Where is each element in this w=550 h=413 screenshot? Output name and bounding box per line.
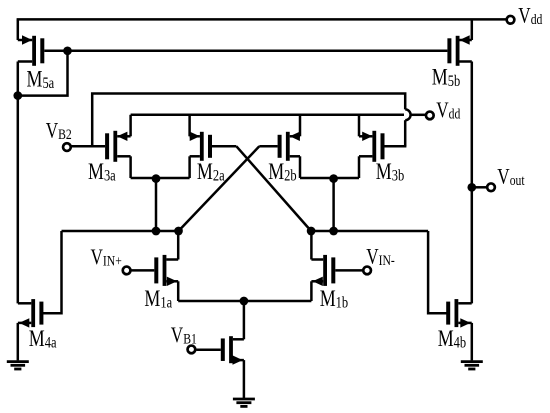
svg-text:M4b: M4b (438, 327, 466, 352)
svg-text:M2a: M2a (197, 160, 225, 185)
wire: diagonal M2a gate to node B (236, 146, 311, 231)
PMOS transistor M3a (105, 131, 131, 162)
svg-text:VIN+: VIN+ (91, 245, 122, 270)
wire: tail line (178, 300, 311, 303)
wire: M1b drain up to node B (310, 231, 313, 260)
junction: tail node (240, 297, 249, 306)
wire: M2a drain drop (188, 156, 191, 178)
terminal Vout (487, 183, 495, 191)
wire: M5b source up to Vdd rail (471, 19, 474, 40)
wire: lead from hop to inner Vdd terminal (411, 114, 426, 117)
ground (under M4a) (7, 362, 29, 369)
PMOS transistor M5a (18, 35, 45, 66)
svg-text:M5a: M5a (27, 67, 55, 92)
wire: node B down to M4b gate (428, 231, 448, 313)
svg-text:M3b: M3b (376, 160, 404, 185)
wire: VIN+ lead to M1a gate (131, 269, 154, 272)
PMOS transistor M3b (359, 131, 385, 162)
wire: right drain node down to node B (332, 178, 335, 231)
wire: VIN- lead to M1b gate (335, 269, 362, 272)
wire: inner Vdd rail (PMOS quad sources) (131, 114, 404, 117)
svg-text:VIN-: VIN- (366, 245, 395, 270)
svg-text:Vdd: Vdd (518, 4, 542, 29)
NMOS transistor M4b (446, 299, 472, 328)
svg-text:Vout: Vout (497, 164, 525, 189)
junction: M5a gate-drain tie node (63, 46, 72, 55)
wire: node B line (311, 230, 428, 233)
wire: left PMOS drain tie bar (131, 177, 190, 180)
svg-text:M1a: M1a (144, 287, 172, 312)
junction: Vout tap on right rail (467, 183, 476, 192)
wire: M3b drain drop (358, 156, 361, 178)
svg-text:VB1: VB1 (171, 323, 197, 348)
wire: gate bus from M5a to M5b (68, 50, 448, 53)
terminal VB2 (63, 143, 71, 151)
junction: node B / drain drop (329, 227, 338, 236)
wire: VB1 lead to gate (196, 348, 221, 351)
wire: M5a source up to Vdd rail (17, 19, 20, 40)
wire: VB2 bias rail linking M3a and M3b gates (92, 94, 405, 147)
wire: M3b gate lead (385, 145, 407, 148)
junction: right PMOS drain node (329, 174, 338, 183)
wire: M1a drain up to node A (177, 231, 180, 260)
wire: right PMOS drain tie bar (300, 177, 359, 180)
wire: M4a source to ground (17, 323, 20, 361)
wire: Vout stub (472, 186, 486, 189)
junction: node B / diagonal / M1b drain (307, 227, 316, 236)
svg-text:M5b: M5b (432, 66, 460, 91)
ground (under M4b) (461, 362, 483, 369)
wire: M5a drain down left rail to M4a drain (17, 62, 20, 304)
terminal VIN+ (123, 267, 131, 275)
NMOS transistor tail current-source transistor (VB1) (221, 336, 244, 365)
terminal Vdd (top right) (507, 16, 515, 24)
wire: M3b source stub to inner rail (358, 115, 361, 137)
wire: node A down to M4a gate (42, 231, 62, 313)
junction: left PMOS drain node (152, 174, 161, 183)
wire: source to ground (243, 360, 246, 398)
wire: M2b gate lead (259, 145, 277, 148)
wire: tail node down to drain (243, 301, 246, 339)
wire: M3a drain drop (129, 156, 132, 178)
wire: diagonal M2b gate to node A (179, 146, 260, 231)
wire: M1a source down to tail (177, 281, 180, 301)
wire: top Vdd rail (17, 18, 506, 21)
svg-text:M2b: M2b (268, 160, 296, 185)
wire: M3a source stub to inner rail (129, 115, 132, 137)
wire: M5b drain down right rail to Vout / M4b (471, 62, 474, 304)
wire: M2b source stub to inner rail (299, 115, 302, 137)
wire: M2a gate lead (212, 145, 236, 148)
PMOS transistor M5b (447, 35, 471, 66)
wire: M2a source stub to inner rail (188, 115, 191, 137)
terminal VB1 (188, 346, 196, 354)
junction: node A / diagonal / M1a drain (174, 227, 183, 236)
svg-text:Vdd: Vdd (436, 98, 460, 123)
junction: node A / drain drop (152, 227, 161, 236)
junction: M5a drain / left rail (13, 91, 22, 100)
NMOS transistor M1b (311, 255, 335, 286)
PMOS transistor M2b (278, 132, 300, 161)
svg-text:M4a: M4a (29, 327, 57, 352)
svg-text:M3a: M3a (88, 160, 116, 185)
wire: M4b source to ground (471, 323, 474, 361)
ground (under tail transistor) (233, 399, 255, 406)
wire: M2b drain drop (299, 156, 302, 178)
svg-text:M1b: M1b (320, 287, 348, 312)
wire: VB2 lead to M3a gate (72, 145, 106, 148)
terminal VIN- (363, 267, 371, 275)
wire: M1b source down to tail (310, 281, 313, 301)
wire: left drain node down to node A (155, 178, 158, 231)
NMOS transistor M4a (18, 299, 44, 328)
wire: node A line (62, 230, 179, 233)
terminal Vdd (inner) (426, 112, 434, 120)
wire: diode-connection jog down and left (18, 51, 68, 96)
wire: crossover hop over inner Vdd rail (405, 109, 410, 120)
wire: M5a gate lead to bus node (44, 50, 67, 53)
wire: VB2 rail down to M3b gate lead (404, 120, 407, 146)
svg-text:VB2: VB2 (46, 118, 72, 143)
PMOS transistor M2a (190, 132, 212, 161)
NMOS transistor M1a (154, 255, 178, 286)
